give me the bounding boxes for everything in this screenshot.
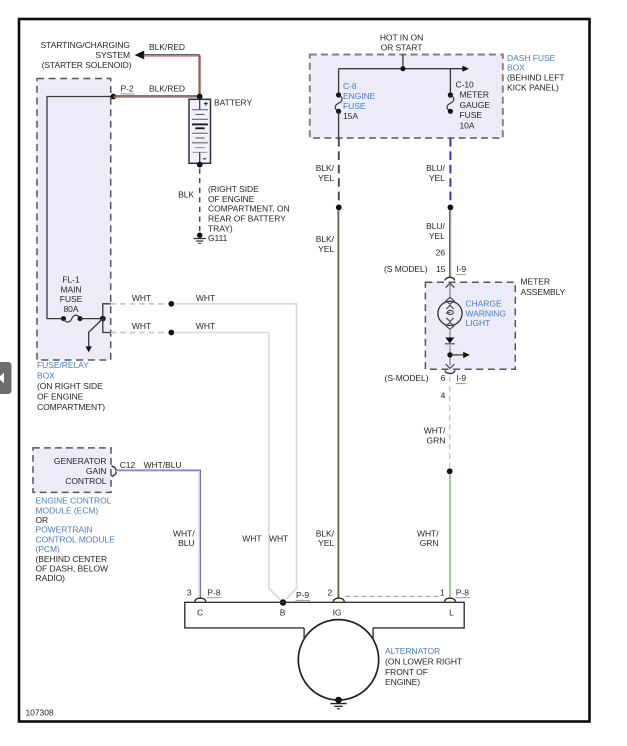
svg-text:2: 2 [328, 587, 333, 597]
note: dash fuse box location [507, 72, 565, 92]
svg-text:P-8: P-8 [207, 587, 220, 597]
wire BLK/YEL dashed segment [338, 138, 340, 204]
svg-text:COMPARTMENT, ON: COMPARTMENT, ON [208, 204, 290, 214]
svg-text:WHT/BLU: WHT/BLU [144, 460, 182, 470]
wire BLK battery to ground (dashed) [199, 169, 201, 232]
svg-text:10A: 10A [460, 120, 475, 130]
wire bus to fuse C-10 [449, 69, 451, 95]
svg-text:OF ENGINE: OF ENGINE [208, 194, 255, 204]
connector I-9 pin 6 [385, 370, 467, 383]
svg-text:WHT: WHT [132, 321, 151, 331]
wire BLK/RED from P-2 to battery [113, 96, 199, 97]
svg-text:BLK/: BLK/ [316, 528, 335, 538]
svg-text:(STARTER SOLENOID): (STARTER SOLENOID) [42, 60, 132, 70]
label BLU/YEL (2) [426, 221, 445, 241]
svg-text:15: 15 [436, 264, 446, 274]
wire BLK/RED riser to starter solenoid [144, 55, 201, 97]
svg-text:3: 3 [187, 587, 192, 597]
wire junction to WHT output 2 [103, 319, 111, 333]
svg-text:(ON LOWER RIGHT: (ON LOWER RIGHT [385, 656, 462, 666]
connector P-2 node [111, 94, 117, 100]
svg-text:GRN: GRN [420, 538, 439, 548]
svg-text:ASSEMBLY: ASSEMBLY [521, 287, 566, 297]
svg-text:P-9: P-9 [296, 590, 309, 600]
wire BLU/YEL dashed segment [449, 138, 451, 204]
svg-text:BLU/: BLU/ [426, 163, 445, 173]
svg-text:C12: C12 [120, 460, 136, 470]
svg-text:GENERATOR: GENERATOR [54, 456, 107, 466]
svg-text:KICK PANEL): KICK PANEL) [507, 83, 559, 93]
node BLK/YEL junction [336, 205, 342, 211]
svg-text:C-10: C-10 [456, 80, 475, 90]
svg-text:GAIN: GAIN [86, 466, 107, 476]
meter assembly box [425, 282, 515, 369]
connector P-8 pin 3 [187, 587, 222, 601]
svg-text:FUSE: FUSE [60, 294, 83, 304]
wire bulb output [449, 346, 451, 366]
svg-text:TRAY): TRAY) [208, 223, 233, 233]
label HOT IN ON OR START [380, 32, 423, 52]
node WHT 1 junction [168, 301, 174, 307]
note: alternator location [385, 656, 462, 687]
label C-8 ENGINE FUSE [343, 81, 376, 111]
wire WHT/GRN dashed segment [449, 377, 451, 468]
svg-text:BOX: BOX [37, 370, 55, 380]
svg-text:FUSE: FUSE [343, 101, 366, 111]
svg-text:WHT: WHT [132, 293, 151, 303]
wire dash fuse box bus [339, 68, 463, 70]
wire WHT output 1 (dashed) [111, 303, 168, 305]
node battery positive terminal [197, 94, 203, 100]
label BLK/YEL (3) [316, 528, 335, 548]
label BLK/YEL (2) [316, 234, 335, 254]
svg-text:I-9: I-9 [456, 264, 466, 274]
fuse C-10 10A [447, 92, 454, 114]
svg-text:15A: 15A [343, 111, 358, 121]
svg-text:ENGINE: ENGINE [343, 91, 376, 101]
fuse/relay box [37, 79, 111, 361]
wire hot feed into bus [402, 55, 404, 69]
alternator connector box [185, 602, 464, 639]
svg-text:107308: 107308 [26, 708, 54, 718]
svg-text:WARNING: WARNING [466, 308, 506, 318]
label BLU/YEL (1) [426, 163, 445, 183]
svg-text:4: 4 [441, 390, 446, 400]
label FL-1 MAIN FUSE 80A [60, 275, 83, 314]
svg-text:FUSE/RELAY: FUSE/RELAY [37, 360, 89, 370]
svg-text:YEL: YEL [318, 244, 334, 254]
svg-text:FUSE: FUSE [460, 110, 483, 120]
diode arrow below bulb [445, 329, 455, 344]
label connector P-9 [296, 590, 311, 600]
svg-text:(BEHIND CENTER: (BEHIND CENTER [36, 554, 108, 564]
svg-text:WHT/: WHT/ [424, 426, 446, 436]
svg-text:GAUGE: GAUGE [460, 100, 491, 110]
svg-text:B: B [280, 608, 286, 618]
note: ECM/PCM location [36, 554, 109, 583]
label WHT/GRN (2) [417, 528, 439, 548]
note: fuse/relay box location [37, 381, 105, 412]
svg-text:C-8: C-8 [343, 81, 357, 91]
svg-text:WHT: WHT [242, 533, 261, 543]
dash fuse box [310, 55, 503, 139]
svg-text:I-9: I-9 [456, 373, 466, 383]
svg-text:GRN: GRN [427, 436, 446, 446]
node BLU/YEL junction [448, 205, 454, 211]
wire WHT 1 to alternator B [174, 304, 296, 602]
label CHARGE WARNING LIGHT [466, 299, 506, 329]
svg-text:(S MODEL): (S MODEL) [384, 264, 428, 274]
label WHT/GRN (1) [424, 426, 446, 446]
svg-text:STARTING/CHARGING: STARTING/CHARGING [40, 40, 130, 50]
node hot feed junction [400, 66, 405, 71]
svg-text:SYSTEM: SYSTEM [95, 50, 130, 60]
arrow branch to right [450, 352, 470, 358]
arrow bus continuation [462, 66, 469, 72]
svg-text:(S-MODEL): (S-MODEL) [385, 373, 429, 383]
svg-text:80A: 80A [64, 304, 79, 314]
svg-text:METER: METER [521, 277, 551, 287]
label (S MODEL) pin 15 [384, 264, 446, 274]
svg-text:BLK/RED: BLK/RED [149, 84, 185, 94]
svg-text:POWERTRAIN: POWERTRAIN [36, 525, 93, 535]
svg-text:26: 26 [436, 247, 446, 257]
wire junction to WHT output 1 [103, 304, 111, 319]
svg-text:HOT IN ON: HOT IN ON [380, 32, 423, 42]
label POWERTRAIN CONTROL MODULE (PCM) [36, 525, 116, 554]
svg-text:OR: OR [36, 515, 49, 525]
connector I-9 pin 15 [445, 264, 467, 280]
svg-text:BLK/: BLK/ [316, 163, 335, 173]
dashed connector span P-8 [346, 595, 441, 597]
svg-text:COMPARTMENT): COMPARTMENT) [37, 402, 105, 412]
svg-text:LIGHT: LIGHT [466, 318, 491, 328]
svg-text:CONTROL: CONTROL [65, 476, 107, 486]
svg-text:ALTERNATOR: ALTERNATOR [385, 646, 440, 656]
svg-text:ENGINE CONTROL: ENGINE CONTROL [36, 496, 112, 506]
wire entry chevron into meter box [446, 283, 455, 298]
ground at alternator case [330, 697, 346, 709]
svg-text:BLU: BLU [178, 538, 194, 548]
battery [189, 99, 211, 163]
svg-text:P-2: P-2 [121, 84, 134, 94]
node battery negative terminal [197, 162, 203, 168]
arrow to starter solenoid [135, 51, 145, 60]
charge warning light bulb [438, 297, 462, 329]
svg-text:BLK/: BLK/ [316, 234, 335, 244]
svg-text:METER: METER [460, 90, 490, 100]
wire WHT 2 to alternator B [174, 333, 282, 602]
svg-text:BLK: BLK [178, 190, 194, 200]
svg-text:OF ENGINE: OF ENGINE [37, 391, 84, 401]
wire WHT/GRN to alternator L [449, 474, 451, 597]
svg-text:IG: IG [333, 608, 342, 618]
label WHT/BLU (vertical run) [173, 528, 195, 548]
label DASH FUSE BOX [507, 53, 556, 73]
ground G111 [194, 233, 206, 244]
note: starting/charging system destination [40, 40, 131, 70]
svg-text:MAIN: MAIN [60, 284, 81, 294]
alternator [298, 620, 378, 700]
arrow to ground inside fuse/relay box [86, 319, 103, 353]
svg-text:CHARGE: CHARGE [466, 299, 502, 309]
svg-text:1: 1 [440, 587, 445, 597]
label BLK/YEL (1) [316, 163, 335, 183]
svg-text:BATTERY: BATTERY [214, 98, 252, 108]
node WHT 2 junction [168, 330, 174, 336]
svg-text:G111: G111 [208, 233, 228, 243]
wire bus to fuse C-8 [338, 69, 340, 95]
svg-text:DASH FUSE: DASH FUSE [507, 53, 556, 63]
wire exit chevron of meter box [446, 364, 455, 368]
svg-text:L: L [449, 608, 454, 618]
svg-text:WHT/: WHT/ [417, 528, 439, 538]
svg-text:OR START: OR START [381, 42, 423, 52]
svg-text:WHT: WHT [196, 321, 215, 331]
svg-text:(RIGHT SIDE: (RIGHT SIDE [208, 184, 259, 194]
label METER ASSEMBLY [521, 277, 566, 297]
svg-text:(PCM): (PCM) [36, 544, 61, 554]
connector P-8 pin 1 [440, 587, 470, 601]
wire fuse C-8 to box edge [338, 111, 340, 138]
label ENGINE CONTROL MODULE (ECM) [36, 496, 112, 516]
label C-10 METER GAUGE FUSE 10A [456, 80, 491, 131]
svg-text:YEL: YEL [429, 231, 445, 241]
svg-text:YEL: YEL [318, 173, 334, 183]
fusible link FL-1 80A [61, 315, 103, 322]
svg-text:RADIO): RADIO) [36, 573, 66, 583]
svg-text:CONTROL MODULE: CONTROL MODULE [36, 534, 116, 544]
svg-text:OF DASH, BELOW: OF DASH, BELOW [36, 564, 109, 574]
generator gain control box [33, 448, 111, 493]
note: battery ground location [208, 184, 290, 233]
svg-text:WHT/: WHT/ [173, 528, 195, 538]
label GENERATOR GAIN CONTROL [54, 456, 107, 486]
svg-text:BLU/: BLU/ [426, 221, 445, 231]
svg-text:MODULE (ECM): MODULE (ECM) [36, 505, 99, 515]
svg-text:FL-1: FL-1 [62, 275, 80, 285]
node WHT/GRN junction [447, 468, 453, 474]
node charge light junction [447, 352, 452, 357]
wire BLU/YEL to meter assembly [450, 210, 451, 277]
label P-2 [121, 84, 135, 94]
svg-text:6: 6 [441, 373, 446, 383]
connector P-8 pin 2 [328, 587, 345, 601]
svg-text:P-8: P-8 [456, 587, 469, 597]
wire from P-2 node down inside fuse/relay box [47, 97, 113, 319]
svg-text:BOX: BOX [507, 62, 525, 72]
svg-text:WHT: WHT [269, 533, 288, 543]
connector C12 [112, 460, 136, 476]
fuse C-8 15A [335, 92, 342, 114]
svg-text:(ON RIGHT SIDE: (ON RIGHT SIDE [37, 381, 103, 391]
wire WHT output 2 (dashed) [111, 332, 168, 334]
node alternator B junction [280, 599, 286, 605]
label FUSE/RELAY BOX [37, 360, 89, 381]
svg-text:BLK/RED: BLK/RED [149, 42, 185, 52]
svg-text:ENGINE): ENGINE) [385, 677, 420, 687]
wire BLK/YEL to alternator IG [338, 210, 339, 597]
svg-text:REAR OF BATTERY: REAR OF BATTERY [208, 214, 286, 224]
svg-text:YEL: YEL [429, 173, 445, 183]
node FL-1 output junction [100, 316, 106, 322]
svg-text:C: C [197, 608, 203, 618]
svg-text:WHT: WHT [196, 293, 215, 303]
wire WHT/BLU to alternator C [116, 470, 200, 597]
svg-text:(BEHIND LEFT: (BEHIND LEFT [507, 72, 565, 82]
svg-text:YEL: YEL [318, 538, 334, 548]
svg-text:FRONT OF: FRONT OF [385, 667, 428, 677]
